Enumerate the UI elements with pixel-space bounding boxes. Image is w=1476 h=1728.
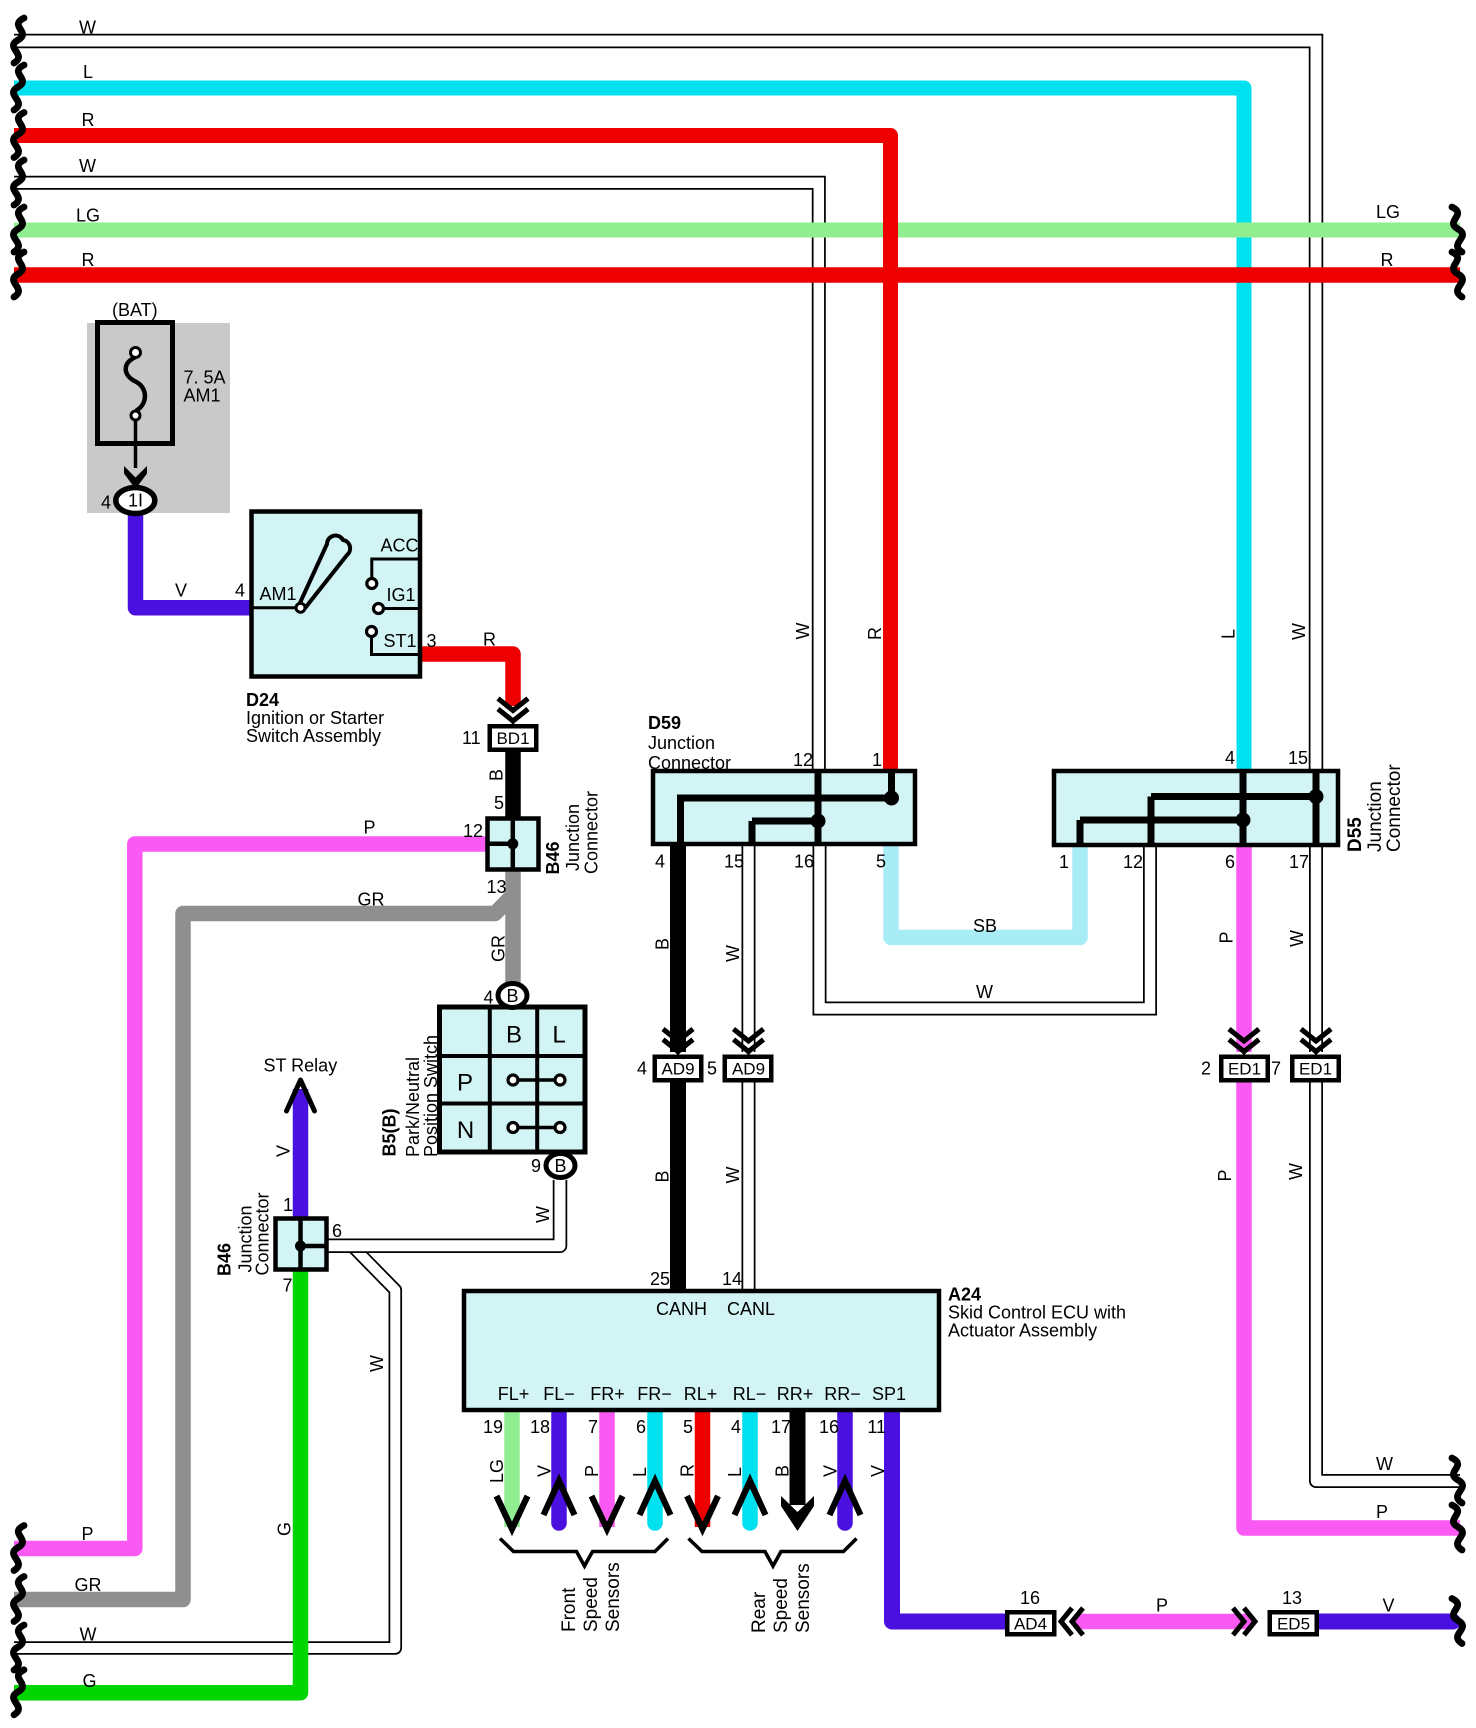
wire W loop (D59 pin 16 to D55 pin 12) <box>820 840 1151 1009</box>
svg-text:B: B <box>487 769 507 781</box>
svg-text:W: W <box>367 1355 387 1372</box>
wire W (ED1 pin 7 to bottom right edge) <box>1316 1082 1460 1481</box>
svg-text:4: 4 <box>484 988 494 1008</box>
svg-text:4: 4 <box>235 581 245 601</box>
fuse output lead <box>134 420 138 468</box>
svg-text:Junction: Junction <box>563 804 583 871</box>
svg-text:W: W <box>79 18 96 38</box>
wire R (D24 ST1 pin 3 to BD1) <box>419 654 513 706</box>
D24 switch lever <box>299 536 350 611</box>
svg-text:P: P <box>457 1070 473 1097</box>
edge squiggle L row2 <box>13 65 24 110</box>
D55 internal bus pin15-17 <box>1313 773 1320 843</box>
connector AD9 left <box>653 1055 704 1083</box>
svg-text:CANH: CANH <box>656 1299 707 1319</box>
svg-text:CANL: CANL <box>727 1299 775 1319</box>
arrow out of AD4 <box>1061 1608 1083 1635</box>
svg-text:Connector: Connector <box>1384 764 1405 852</box>
svg-text:17: 17 <box>1289 852 1309 872</box>
B5(B) P row contact <box>513 1078 560 1082</box>
svg-text:Actuator Assembly: Actuator Assembly <box>948 1321 1097 1341</box>
svg-text:P: P <box>82 1524 94 1544</box>
svg-text:A24: A24 <box>948 1285 981 1305</box>
svg-text:4: 4 <box>1225 748 1235 768</box>
svg-text:LG: LG <box>76 206 100 226</box>
svg-text:W: W <box>79 156 96 176</box>
wire P (B46 pin 12 to left edge) <box>14 844 489 1549</box>
svg-text:12: 12 <box>463 821 483 841</box>
B5(B) pin 4 B ring terminal <box>498 984 527 1008</box>
ST relay arrow <box>287 1080 315 1111</box>
svg-text:13: 13 <box>487 877 507 897</box>
D59 internal bus pin1 <box>888 773 895 798</box>
fuse arrow head <box>124 466 147 489</box>
connector ED1 left <box>1219 1055 1270 1083</box>
svg-text:Position Switch: Position Switch <box>421 1035 441 1157</box>
arrow into ED1 right <box>1301 1029 1331 1056</box>
wire V (A24 FL- pin 18) <box>551 1408 567 1523</box>
wire LG row5 (left edge to right edge) <box>14 223 1460 238</box>
wire W (D59 pin 15 to AD9) <box>742 842 756 1052</box>
svg-text:(BAT): (BAT) <box>112 300 158 320</box>
svg-text:11: 11 <box>462 728 481 748</box>
svg-text:RL−: RL− <box>733 1384 767 1404</box>
sensor arrow down FL+ <box>497 1496 528 1529</box>
svg-text:V: V <box>535 1465 555 1477</box>
svg-text:Rear: Rear <box>749 1591 770 1633</box>
edge squiggle R row3 <box>13 113 24 158</box>
svg-text:AD9: AD9 <box>661 1060 694 1079</box>
D59 internal bus horizontal 1 <box>677 795 892 802</box>
junction connector B46 lower <box>276 1219 327 1270</box>
D59 internal bus pin4 <box>677 798 684 842</box>
wire V (A24 SP1 pin 11 to AD4) <box>892 1408 1006 1622</box>
svg-text:L: L <box>1219 629 1239 639</box>
svg-text:LG: LG <box>487 1459 507 1483</box>
svg-text:6: 6 <box>332 1221 342 1241</box>
wire R row3 (left edge to D59 pin 1) <box>14 136 891 774</box>
svg-text:B46: B46 <box>215 1243 235 1276</box>
fuse box 7.5A AM1 <box>98 323 173 444</box>
D59 internal bus pin15 <box>749 821 756 842</box>
svg-text:V: V <box>1383 1596 1395 1616</box>
svg-text:P: P <box>1217 931 1237 943</box>
B5(B) N row contact <box>513 1126 560 1130</box>
svg-text:Connector: Connector <box>582 791 602 874</box>
D55 internal bus pin12 <box>1148 797 1155 844</box>
edge squiggle R row6 <box>13 252 24 297</box>
D55 internal bus pin4-6 <box>1240 773 1247 843</box>
svg-text:ST1: ST1 <box>384 631 417 651</box>
svg-text:P: P <box>1215 1169 1235 1181</box>
wire W (AD9 to A24 CANL pin 14) <box>742 1082 756 1293</box>
sensor arrow down RR+ filled <box>781 1496 814 1531</box>
junction connector B46 upper <box>488 819 539 870</box>
svg-text:Connector: Connector <box>253 1192 273 1275</box>
svg-text:14: 14 <box>722 1269 742 1289</box>
svg-text:R: R <box>678 1464 698 1477</box>
svg-text:6: 6 <box>636 1417 646 1437</box>
junction connector D59 <box>653 771 915 844</box>
svg-text:W: W <box>533 1206 553 1223</box>
svg-text:16: 16 <box>1020 1588 1040 1608</box>
svg-text:FL+: FL+ <box>498 1384 530 1404</box>
svg-text:W: W <box>1287 930 1307 947</box>
D59 internal bus horizontal 2 <box>752 818 818 825</box>
svg-text:Skid Control ECU with: Skid Control ECU with <box>948 1303 1126 1323</box>
connector 1I oval <box>116 488 155 514</box>
svg-text:RR+: RR+ <box>777 1384 814 1404</box>
svg-text:G: G <box>83 1671 97 1691</box>
svg-text:L: L <box>630 1467 650 1477</box>
edge squiggle GR left bottom <box>13 1577 24 1622</box>
svg-text:V: V <box>274 1145 294 1157</box>
svg-text:R: R <box>483 630 496 650</box>
edge squiggle LG row5 <box>13 207 24 252</box>
arrow into BD1 <box>498 699 528 726</box>
svg-text:5: 5 <box>707 1059 717 1079</box>
svg-text:9: 9 <box>531 1156 541 1176</box>
svg-text:W: W <box>723 945 743 962</box>
svg-text:AM1: AM1 <box>184 386 221 406</box>
ignition switch D24 box <box>252 512 421 677</box>
D55 node dots <box>1309 789 1324 804</box>
svg-text:W: W <box>1286 1163 1306 1180</box>
svg-text:3: 3 <box>427 631 437 651</box>
svg-text:6: 6 <box>1225 852 1235 872</box>
svg-text:W: W <box>976 982 993 1002</box>
svg-text:Ignition or Starter: Ignition or Starter <box>246 708 384 728</box>
svg-text:IG1: IG1 <box>387 585 416 605</box>
svg-text:4: 4 <box>731 1417 741 1437</box>
wire G (B46 pin 7 to left edge) <box>14 1268 301 1693</box>
edge squiggle LG right <box>1452 207 1463 252</box>
arrow into ED1 left <box>1229 1029 1259 1056</box>
svg-text:R: R <box>1381 250 1394 270</box>
wire V (fuse 1I to D24 AM1 pin 4) <box>136 510 253 608</box>
svg-text:15: 15 <box>724 852 744 872</box>
svg-text:D59: D59 <box>648 713 681 733</box>
svg-text:V: V <box>868 1465 888 1477</box>
wire B (D59 pin 4 to AD9) <box>670 842 686 1052</box>
svg-text:AD9: AD9 <box>732 1060 765 1079</box>
svg-text:GR: GR <box>489 935 509 962</box>
svg-text:P: P <box>364 818 376 838</box>
svg-text:P: P <box>1376 1502 1388 1522</box>
D24 pivot <box>296 603 305 612</box>
svg-text:15: 15 <box>1288 748 1308 768</box>
svg-text:Junction: Junction <box>1365 781 1386 852</box>
brace front speed sensors <box>500 1539 668 1567</box>
edge squiggle W row4 <box>13 160 24 205</box>
sensor arrow up RL- <box>735 1481 766 1515</box>
svg-text:B: B <box>506 986 518 1006</box>
svg-text:N: N <box>457 1117 474 1144</box>
svg-text:2: 2 <box>1201 1059 1211 1079</box>
edge squiggle G left bottom <box>13 1670 24 1715</box>
arrow into ED5 <box>1233 1608 1255 1635</box>
svg-text:11: 11 <box>867 1417 886 1437</box>
D24 AM1 contact line <box>253 606 297 609</box>
svg-text:ACC: ACC <box>381 536 419 556</box>
svg-text:ED5: ED5 <box>1277 1615 1310 1634</box>
svg-text:Front: Front <box>559 1587 580 1632</box>
svg-text:B: B <box>653 1170 673 1182</box>
svg-text:FL−: FL− <box>543 1384 575 1404</box>
svg-text:W: W <box>1376 1454 1393 1474</box>
edge squiggle P left bottom <box>13 1526 24 1571</box>
brace rear speed sensors <box>689 1539 857 1567</box>
svg-text:17: 17 <box>771 1417 791 1437</box>
wire V (A24 RR- pin 16) <box>837 1408 853 1523</box>
svg-text:RL+: RL+ <box>684 1384 718 1404</box>
svg-text:D55: D55 <box>1345 817 1366 852</box>
svg-text:1: 1 <box>283 1195 293 1215</box>
svg-text:7: 7 <box>283 1276 293 1296</box>
svg-text:1: 1 <box>1059 852 1069 872</box>
arrow into AD9 left <box>663 1029 693 1056</box>
svg-text:Junction: Junction <box>648 733 715 753</box>
fuse holder gray background <box>87 323 230 513</box>
wire R row6 (left edge to right edge) <box>14 267 1460 283</box>
wire V (B46 pin 1 to ST relay) <box>293 1089 309 1220</box>
svg-text:Sensors: Sensors <box>603 1562 624 1632</box>
wire P (AD4 to ED5) <box>1080 1614 1245 1630</box>
edge squiggle P right bottom <box>1452 1505 1463 1550</box>
edge squiggle W right bottom <box>1452 1458 1463 1503</box>
wire L (A24 FR- pin 6) <box>647 1408 663 1523</box>
wire V (ED5 to right edge) <box>1318 1614 1453 1630</box>
edge squiggle R right <box>1452 252 1463 297</box>
svg-text:B: B <box>653 938 673 950</box>
wire R (A24 RL+ pin 5) <box>695 1408 711 1527</box>
wire P (ED1 pin 2 to bottom right edge) <box>1244 1082 1460 1528</box>
svg-text:B5(B): B5(B) <box>380 1108 400 1156</box>
D24 IG1 contact <box>384 607 418 610</box>
svg-text:Speed: Speed <box>581 1577 602 1632</box>
svg-text:ST Relay: ST Relay <box>264 1056 338 1076</box>
edge squiggle V right bottom <box>1452 1599 1463 1644</box>
D59 internal bus pin12-16 <box>815 773 822 842</box>
svg-text:5: 5 <box>683 1417 693 1437</box>
wire B (A24 RR+ pin 17) <box>790 1408 806 1505</box>
wire W (branch to bottom left edge) <box>14 1246 395 1648</box>
svg-text:R: R <box>82 250 95 270</box>
svg-text:25: 25 <box>650 1269 670 1289</box>
svg-text:16: 16 <box>819 1417 839 1437</box>
svg-text:W: W <box>1289 623 1309 640</box>
connector AD9 right <box>723 1055 774 1083</box>
svg-text:GR: GR <box>358 890 385 910</box>
D24 ACC contact <box>372 559 418 578</box>
park/neutral position switch B5(B) <box>440 1007 586 1152</box>
svg-text:7: 7 <box>588 1417 598 1437</box>
svg-text:L: L <box>725 1467 745 1477</box>
svg-text:SB: SB <box>973 916 997 936</box>
svg-text:W: W <box>793 623 813 640</box>
svg-text:13: 13 <box>1282 1588 1302 1608</box>
svg-text:AD4: AD4 <box>1014 1615 1047 1634</box>
wire P (D55 pin 6 to ED1) <box>1236 843 1252 1052</box>
D55 internal bus horizontal 2 <box>1080 817 1243 824</box>
svg-text:7: 7 <box>1271 1059 1281 1079</box>
svg-text:1I: 1I <box>128 491 143 511</box>
wire W row4 (left edge to D59 pin 12) <box>14 183 819 773</box>
svg-text:12: 12 <box>793 750 813 770</box>
svg-text:Connector: Connector <box>648 753 731 773</box>
svg-text:5: 5 <box>494 793 504 813</box>
svg-text:Sensors: Sensors <box>793 1563 814 1633</box>
svg-text:G: G <box>275 1522 295 1536</box>
svg-text:SP1: SP1 <box>872 1384 906 1404</box>
D55 internal bus horizontal 1 <box>1151 793 1316 800</box>
sensor arrow up FR- <box>640 1481 671 1515</box>
svg-text:4: 4 <box>101 493 111 513</box>
sensor arrow up FL- <box>544 1481 575 1515</box>
junction connector D55 <box>1054 771 1338 845</box>
wire LG (A24 FL+ pin 19 to front sensor) <box>504 1408 520 1527</box>
svg-text:L: L <box>552 1022 565 1049</box>
wire W row1 (left edge to D55 pin 15) <box>14 41 1316 773</box>
svg-text:Speed: Speed <box>771 1578 792 1633</box>
svg-text:V: V <box>821 1465 841 1477</box>
svg-text:7. 5A: 7. 5A <box>184 368 226 388</box>
svg-text:R: R <box>82 110 95 130</box>
wire L (A24 RL- pin 4) <box>742 1408 758 1523</box>
svg-text:ED1: ED1 <box>1228 1060 1261 1079</box>
sensor arrow down RL+ <box>687 1496 718 1529</box>
svg-text:4: 4 <box>655 852 665 872</box>
wire W (D55 pin 17 to ED1) <box>1309 843 1323 1052</box>
svg-text:Switch Assembly: Switch Assembly <box>246 726 381 746</box>
svg-text:BD1: BD1 <box>496 729 529 748</box>
wire GR (B46 pin 13 branch to left edge and to B5(B) pin 4) <box>505 867 521 983</box>
svg-text:18: 18 <box>530 1417 550 1437</box>
svg-text:W: W <box>80 1625 97 1645</box>
svg-text:16: 16 <box>794 852 814 872</box>
connector ED5 <box>1268 1610 1320 1637</box>
svg-text:B46: B46 <box>543 841 563 874</box>
B5(B) pin 9 B ring terminal <box>546 1154 575 1178</box>
svg-text:GR: GR <box>75 1575 102 1595</box>
wire B (AD9 to A24 CANH pin 25) <box>670 1082 686 1293</box>
svg-text:19: 19 <box>483 1417 503 1437</box>
svg-text:P: P <box>582 1465 602 1477</box>
connector AD4 <box>1005 1610 1057 1637</box>
wire L row2 (left edge to D55 pin 4) <box>14 88 1244 773</box>
wire P (A24 FR+ pin 7) <box>599 1408 615 1527</box>
wire SB (D59 pin 5 to D55 pin 1) <box>891 842 1080 938</box>
svg-text:W: W <box>723 1167 743 1184</box>
D55 internal bus pin1 <box>1077 820 1084 843</box>
svg-text:P: P <box>1156 1596 1168 1616</box>
wire B (BD1 to B46 upper) <box>505 750 521 820</box>
svg-text:Park/Neutral: Park/Neutral <box>403 1057 423 1157</box>
skid control ECU A24 <box>464 1291 939 1410</box>
svg-text:LG: LG <box>1376 202 1400 222</box>
edge squiggle W left bottom <box>13 1625 24 1670</box>
svg-text:4: 4 <box>637 1059 647 1079</box>
arrow into AD9 right <box>734 1029 764 1056</box>
D24 ST1 contact <box>372 637 419 655</box>
svg-text:B: B <box>773 1465 793 1477</box>
svg-text:D24: D24 <box>246 690 279 710</box>
svg-text:R: R <box>865 627 885 640</box>
svg-text:V: V <box>175 581 187 601</box>
sensor arrow up RR- <box>830 1481 861 1515</box>
svg-text:1: 1 <box>872 750 882 770</box>
svg-text:B: B <box>554 1156 566 1176</box>
svg-text:ED1: ED1 <box>1299 1060 1332 1079</box>
svg-text:FR+: FR+ <box>590 1384 625 1404</box>
connector ED1 right <box>1290 1055 1341 1083</box>
wire W (B46 pin 6 to B5(B) pin 9) <box>327 1180 560 1246</box>
svg-text:L: L <box>83 62 93 82</box>
D59 node dots <box>884 791 899 806</box>
svg-text:5: 5 <box>876 852 886 872</box>
svg-text:AM1: AM1 <box>260 584 297 604</box>
edge squiggle W row1 <box>13 18 24 63</box>
sensor arrow down FR+ <box>592 1496 623 1529</box>
svg-text:FR−: FR− <box>637 1384 672 1404</box>
svg-text:B: B <box>506 1022 522 1049</box>
svg-text:12: 12 <box>1123 852 1143 872</box>
connector BD1 <box>488 724 539 752</box>
svg-text:RR−: RR− <box>824 1384 861 1404</box>
fuse element symbol <box>126 357 145 411</box>
